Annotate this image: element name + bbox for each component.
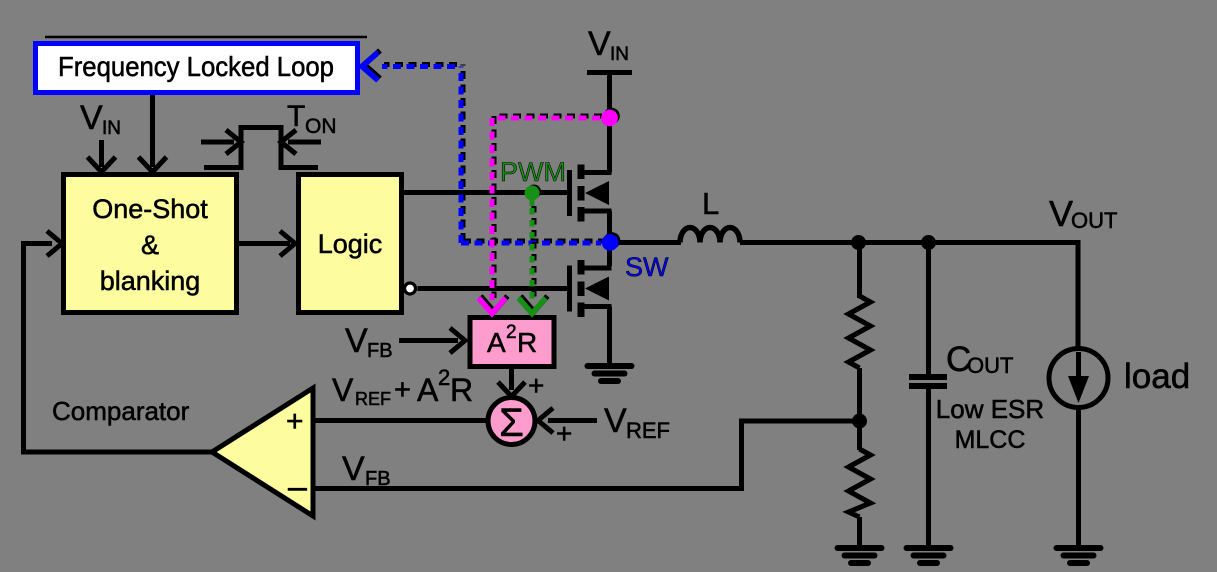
block One-Shot & blanking	[64, 175, 237, 313]
block Frequency Locked Loop (FLL)	[36, 37, 368, 93]
current source load symbol	[1049, 349, 1108, 408]
svg-text:OUT: OUT	[967, 353, 1013, 378]
wire R1 to FB node	[857, 368, 862, 421]
svg-text:IN: IN	[102, 118, 121, 139]
wire COUT to ground	[926, 386, 931, 546]
svg-text:+: +	[556, 418, 572, 449]
wire node to COUT	[926, 243, 931, 375]
junction node at resistor divider top	[851, 235, 866, 250]
svg-text:Frequency Locked Loop: Frequency Locked Loop	[58, 51, 334, 82]
svg-text:PWM: PWM	[500, 157, 566, 187]
transistor Q2 low-side NMOS	[570, 260, 612, 317]
svg-text:load: load	[1124, 357, 1190, 396]
resistor R1	[849, 296, 871, 368]
wire comparator output feedback	[24, 244, 213, 453]
junction node at COUT top	[921, 235, 936, 250]
svg-text:R: R	[450, 372, 473, 408]
wire One-Shot to Logic with arrow	[239, 231, 295, 256]
label VIN (left)	[80, 99, 121, 139]
ground under Q2	[588, 366, 632, 381]
summer node sigma	[488, 398, 535, 446]
svg-text:+: +	[394, 374, 411, 406]
wire R2 to ground	[857, 517, 862, 546]
wire FB tap to left	[742, 421, 860, 489]
svg-text:IN: IN	[610, 44, 629, 65]
svg-text:A: A	[417, 372, 439, 408]
node VIN sense (magenta dot)	[601, 110, 618, 127]
svg-text:REF: REF	[626, 418, 670, 443]
svg-text:2: 2	[506, 322, 517, 343]
svg-text:FB: FB	[365, 468, 391, 490]
svg-text:MLCC: MLCC	[955, 426, 1026, 454]
resistor R2	[849, 449, 871, 517]
svg-text:–: –	[288, 468, 307, 506]
svg-text:L: L	[702, 186, 719, 221]
svg-text:V: V	[1049, 193, 1073, 234]
wire VREF arrow into summer	[538, 408, 597, 433]
dashed blue SW feedback to FLL	[362, 53, 601, 244]
svg-text:V: V	[342, 450, 365, 488]
svg-text:One-Shot: One-Shot	[92, 194, 208, 224]
ground under load	[1057, 548, 1101, 563]
svg-text:R: R	[517, 327, 537, 358]
wire Q1 source to SW node	[607, 211, 612, 266]
svg-text:V: V	[604, 402, 627, 440]
wire node to R1	[857, 243, 862, 299]
label VREF + A2R	[332, 365, 473, 409]
label VFB (comparator input)	[342, 450, 391, 490]
svg-text:SW: SW	[625, 252, 669, 282]
svg-text:FB: FB	[367, 340, 393, 362]
svg-text:REF: REF	[355, 389, 391, 409]
svg-text:+: +	[528, 370, 544, 401]
svg-text:V: V	[332, 372, 354, 408]
wire VIN to Q1 drain	[607, 73, 612, 173]
ground under R2	[838, 548, 882, 563]
svg-text:Logic: Logic	[318, 229, 383, 259]
transistor Q1 high-side NMOS	[570, 165, 612, 222]
svg-text:Low ESR: Low ESR	[936, 394, 1044, 424]
svg-text:V: V	[588, 25, 611, 63]
wire VOUT down to load	[1076, 240, 1081, 349]
wire R2	[857, 421, 862, 450]
wire load to ground	[1076, 408, 1081, 547]
svg-text:blanking: blanking	[100, 266, 201, 296]
svg-text:Σ: Σ	[499, 401, 524, 445]
svg-text:ON: ON	[305, 115, 337, 138]
waveform TON pulse	[201, 128, 321, 168]
svg-text:V: V	[345, 322, 368, 360]
node PWM (green dot)	[527, 185, 541, 199]
label COUT	[946, 340, 1013, 379]
svg-text:2: 2	[438, 365, 450, 390]
label TON	[287, 100, 337, 138]
svg-text:+: +	[286, 405, 304, 438]
junction node FB tap	[852, 414, 867, 429]
svg-text:Comparator: Comparator	[52, 396, 190, 426]
dashed green PWM sense to A2R	[530, 193, 535, 206]
svg-text:OUT: OUT	[1071, 208, 1117, 233]
svg-text:A: A	[487, 327, 506, 358]
wire Logic lower output to Q2 gate	[418, 286, 568, 291]
comparator U1	[212, 388, 313, 516]
label VFB (A2R input)	[345, 322, 393, 362]
capacitor COUT	[909, 377, 947, 386]
wire VFB to comparator minus input	[313, 486, 744, 491]
wire SW node to inductor	[610, 240, 682, 245]
node SW (blue dot)	[602, 234, 619, 251]
wire Q2 source to ground	[607, 307, 612, 365]
dashed magenta VIN sense to A2R	[479, 118, 601, 314]
label VIN (top rail)	[588, 25, 629, 65]
wire comparator plus input to summer	[313, 418, 487, 423]
inductor L	[680, 228, 740, 243]
svg-text:V: V	[80, 99, 103, 137]
wire Logic top output to Q1 gate	[403, 190, 567, 195]
svg-text:T: T	[287, 100, 305, 133]
wire FLL to One-Shot with arrow	[139, 95, 167, 172]
wire inductor to VOUT corner	[740, 240, 1080, 245]
wire VIN arrow into One-Shot	[88, 140, 116, 172]
block Logic	[299, 175, 402, 313]
label VOUT	[1049, 193, 1117, 234]
svg-text:&: &	[141, 230, 159, 260]
label Low ESR MLCC	[936, 394, 1044, 454]
ground under COUT	[907, 548, 951, 563]
power rail VIN bar	[587, 70, 632, 75]
wire A2R output to summer with arrow	[498, 366, 525, 397]
inverter bubble on Logic lower output	[405, 283, 416, 294]
label VREF	[604, 402, 670, 443]
wire VFB arrow into A2R	[399, 328, 465, 353]
block A2R	[470, 318, 554, 367]
